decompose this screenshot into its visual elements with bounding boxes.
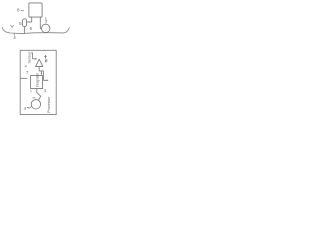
svg-text:8: 8	[17, 8, 20, 13]
right leg wire	[40, 17, 41, 28]
op-amp triangle	[36, 59, 43, 66]
input leader line	[20, 77, 27, 79]
leader dash 8	[21, 9, 24, 11]
svg-text:Sensor: Sensor	[27, 51, 31, 63]
sensor stem wire	[23, 26, 25, 33]
label dash 7	[25, 65, 27, 68]
sensor element 5	[22, 19, 26, 27]
wheel 9	[42, 24, 50, 32]
dash near circle top	[33, 97, 36, 99]
label ti mark	[44, 55, 47, 62]
wire amp output	[39, 67, 41, 74]
svg-text:Processor: Processor	[47, 96, 51, 113]
inner box integrator	[31, 76, 43, 89]
branch wire	[41, 71, 46, 80]
leader to wheel	[45, 21, 47, 23]
label dash 4b	[27, 106, 29, 109]
ground surface line	[2, 27, 69, 33]
left leg wire	[27, 17, 32, 22]
leader tick 2	[13, 33, 15, 35]
outer frame of block diagram	[20, 50, 56, 114]
leader from circle	[29, 106, 32, 108]
svg-text:Integrator: Integrator	[36, 72, 40, 87]
arrowhead into box	[41, 73, 43, 75]
tick below box	[30, 91, 32, 92]
arrowhead right	[47, 79, 49, 81]
svg-text:2: 2	[13, 35, 16, 40]
housing box 8	[29, 3, 42, 17]
wire from sensor label	[31, 53, 35, 59]
circle detector	[31, 100, 40, 109]
wire box to circle	[37, 89, 41, 100]
arrowhead into amp	[35, 58, 37, 60]
leader mark left	[11, 25, 14, 27]
